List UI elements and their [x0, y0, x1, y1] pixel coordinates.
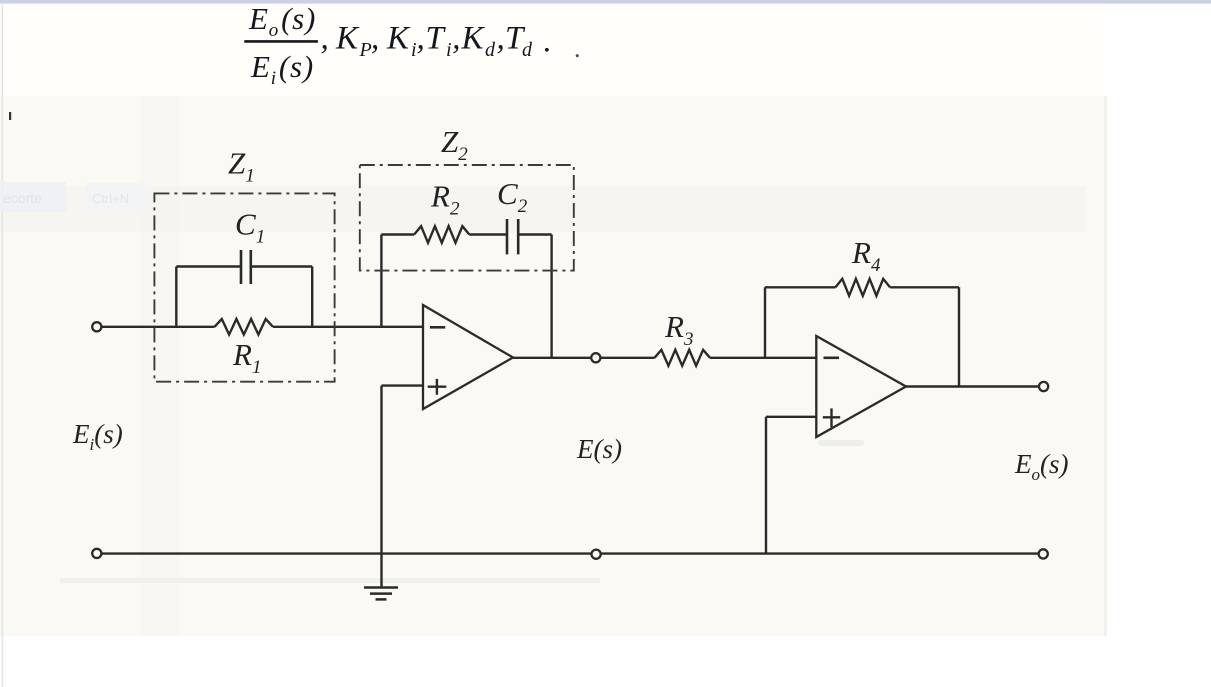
svg-text:Ctrl+N: Ctrl+N: [92, 191, 129, 206]
svg-text:K: K: [461, 21, 486, 57]
svg-text:,: ,: [452, 21, 460, 57]
svg-text:.: .: [574, 34, 581, 63]
svg-text:Eo(s): Eo(s): [248, 1, 316, 41]
svg-text:Ei(s): Ei(s): [250, 49, 314, 89]
svg-text:Eo(s): Eo(s): [1014, 449, 1069, 484]
svg-text:d: d: [485, 39, 496, 61]
svg-text:.: .: [544, 24, 552, 60]
svg-text:,: ,: [321, 21, 329, 57]
svg-text:T: T: [426, 21, 447, 57]
svg-text:K: K: [335, 21, 360, 57]
svg-text:,: ,: [417, 21, 425, 57]
svg-text:K: K: [386, 21, 411, 57]
svg-text:i: i: [446, 39, 452, 61]
svg-text:P: P: [359, 39, 372, 61]
svg-text:d: d: [522, 39, 533, 61]
svg-text:Ei(s): Ei(s): [72, 419, 123, 454]
svg-text:,: ,: [371, 21, 379, 57]
svg-text:E(s): E(s): [576, 434, 622, 464]
svg-text:ecorte: ecorte: [3, 190, 42, 206]
svg-text:,: ,: [497, 21, 505, 57]
